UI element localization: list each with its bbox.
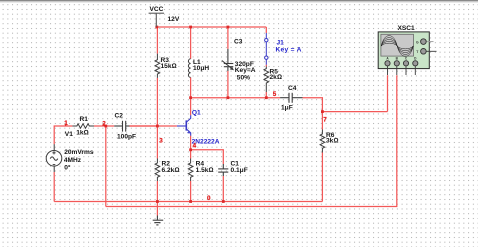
- svg-text:4: 4: [193, 143, 197, 150]
- junction node5 / L1-collector: [189, 96, 192, 99]
- wire collector drop: [190, 98, 192, 116]
- capacitor C1: [218, 164, 228, 176]
- capacitor C2: [114, 121, 129, 132]
- resistor R5: [264, 67, 269, 93]
- ground symbol: [153, 216, 164, 225]
- resistor R4: [188, 159, 193, 182]
- svg-text:XSC1: XSC1: [398, 25, 416, 32]
- svg-text:C3: C3: [234, 39, 243, 46]
- junction node5 / R5: [265, 96, 268, 99]
- wire ground stem: [156, 202, 158, 216]
- junction VCC rail / R3: [155, 26, 158, 29]
- svg-text:0°: 0°: [64, 163, 71, 171]
- wire emitter to R4: [190, 150, 192, 159]
- resistor R3: [155, 54, 160, 78]
- svg-text:1kΩ: 1kΩ: [76, 130, 88, 137]
- wire R6 bottom to ground rail: [321, 153, 323, 202]
- resistor R1: [72, 124, 94, 128]
- capacitor C4: [280, 93, 302, 103]
- svg-text:5: 5: [273, 91, 277, 98]
- wire emitter down: [190, 136, 192, 150]
- power VCC: [149, 13, 164, 27]
- resistor R2: [155, 159, 160, 182]
- wire node7 horizontal: [322, 111, 387, 113]
- node 1 tick: [65, 124, 67, 126]
- svg-text:Key = A: Key = A: [276, 46, 302, 53]
- wire L1 top: [190, 27, 192, 59]
- svg-text:G: G: [416, 40, 419, 44]
- svg-text:C4: C4: [288, 85, 297, 92]
- junction node3: [156, 125, 159, 128]
- svg-text:R1: R1: [80, 116, 89, 123]
- svg-text:0: 0: [207, 195, 211, 202]
- wire L1 bottom to node5 rail: [190, 77, 192, 97]
- wire base (node 3): [130, 125, 177, 127]
- svg-text:3kΩ: 3kΩ: [326, 137, 338, 144]
- svg-text:6.2kΩ: 6.2kΩ: [162, 167, 180, 174]
- inductor L1: [188, 59, 190, 78]
- svg-text:10μH: 10μH: [193, 65, 209, 72]
- wire J1 top stub: [265, 27, 267, 33]
- node 2 tick: [103, 124, 105, 126]
- junction VCC rail / L1: [189, 26, 192, 29]
- variable capacitor C3: [222, 49, 234, 71]
- scope right terminals G T: [421, 39, 437, 54]
- svg-text:2kΩ: 2kΩ: [270, 74, 282, 81]
- junction ground / R2: [156, 200, 159, 203]
- wire J1 to R5: [265, 65, 267, 67]
- svg-text:12V: 12V: [168, 16, 180, 23]
- junction ground / R4: [189, 200, 192, 203]
- junction ground / C1: [222, 200, 225, 203]
- oscilloscope XSC1: [378, 32, 436, 75]
- resistor R6: [320, 130, 325, 153]
- wire scope B bottom run: [106, 75, 397, 206]
- junction node5 / C3: [227, 96, 230, 99]
- transistor Q1: [177, 115, 191, 135]
- wire node5 rail: [191, 97, 281, 99]
- wire C3 top: [227, 27, 229, 49]
- junction emitter node4: [189, 148, 192, 151]
- wire emitter to C1: [191, 150, 224, 164]
- variable capacitor C3 arrowhead: [230, 67, 234, 71]
- wire R1 to node 2: [94, 125, 106, 127]
- wire node2 monitor down: [105, 126, 107, 207]
- svg-text:1.5kΩ: 1.5kΩ: [196, 167, 214, 174]
- junction node7 / R6: [321, 110, 324, 113]
- svg-text:1: 1: [64, 120, 68, 127]
- svg-text:100pF: 100pF: [117, 133, 136, 140]
- wire C1 bottom to ground rail: [222, 176, 224, 202]
- wire VCC top rail: [157, 26, 266, 28]
- wire R2 top: [156, 126, 158, 159]
- wire R3 bottom to node 3: [156, 78, 158, 126]
- wire R2 bottom to ground rail: [156, 181, 158, 202]
- svg-text:Q1: Q1: [192, 110, 201, 117]
- svg-text:1μF: 1μF: [281, 105, 293, 112]
- svg-text:15kΩ: 15kΩ: [161, 63, 177, 70]
- wire R4 bottom to ground rail: [190, 181, 192, 202]
- wire ground rail: [54, 201, 322, 203]
- svg-text:0.1μF: 0.1μF: [231, 167, 248, 174]
- svg-text:50%: 50%: [237, 74, 250, 81]
- svg-text:20mVrms: 20mVrms: [64, 149, 94, 156]
- transistor Q1 emitter arrow: [187, 131, 191, 134]
- source V1: [46, 144, 62, 172]
- wire scope A drop: [387, 75, 389, 111]
- wire C3 bottom to node5 rail: [227, 71, 229, 98]
- svg-text:Key=A: Key=A: [235, 67, 256, 74]
- svg-text:C2: C2: [115, 112, 124, 119]
- wire V1 bottom to ground rail: [53, 172, 55, 202]
- junction node2: [104, 125, 107, 128]
- svg-text:VCC: VCC: [150, 6, 164, 13]
- top window edge shading: [0, 0, 478, 1]
- wire C2 to node 3: [130, 125, 158, 127]
- wire C4 right to node7: [303, 98, 323, 112]
- wire R5 bottom to node5 rail: [265, 92, 267, 98]
- svg-text:V1: V1: [65, 131, 73, 138]
- junction VCC rail / C3: [227, 26, 230, 29]
- svg-text:7: 7: [323, 116, 327, 123]
- wire V1 to R1: [54, 126, 72, 144]
- scope bottom terminals A B C D: [385, 61, 418, 75]
- switch J1: [265, 33, 268, 65]
- wire R6 top: [321, 112, 323, 130]
- wire R3 top (VCC rail to R3): [156, 27, 158, 54]
- svg-text:3: 3: [159, 138, 163, 145]
- svg-text:4MHz: 4MHz: [64, 157, 82, 164]
- wire node2 to C2: [106, 125, 114, 127]
